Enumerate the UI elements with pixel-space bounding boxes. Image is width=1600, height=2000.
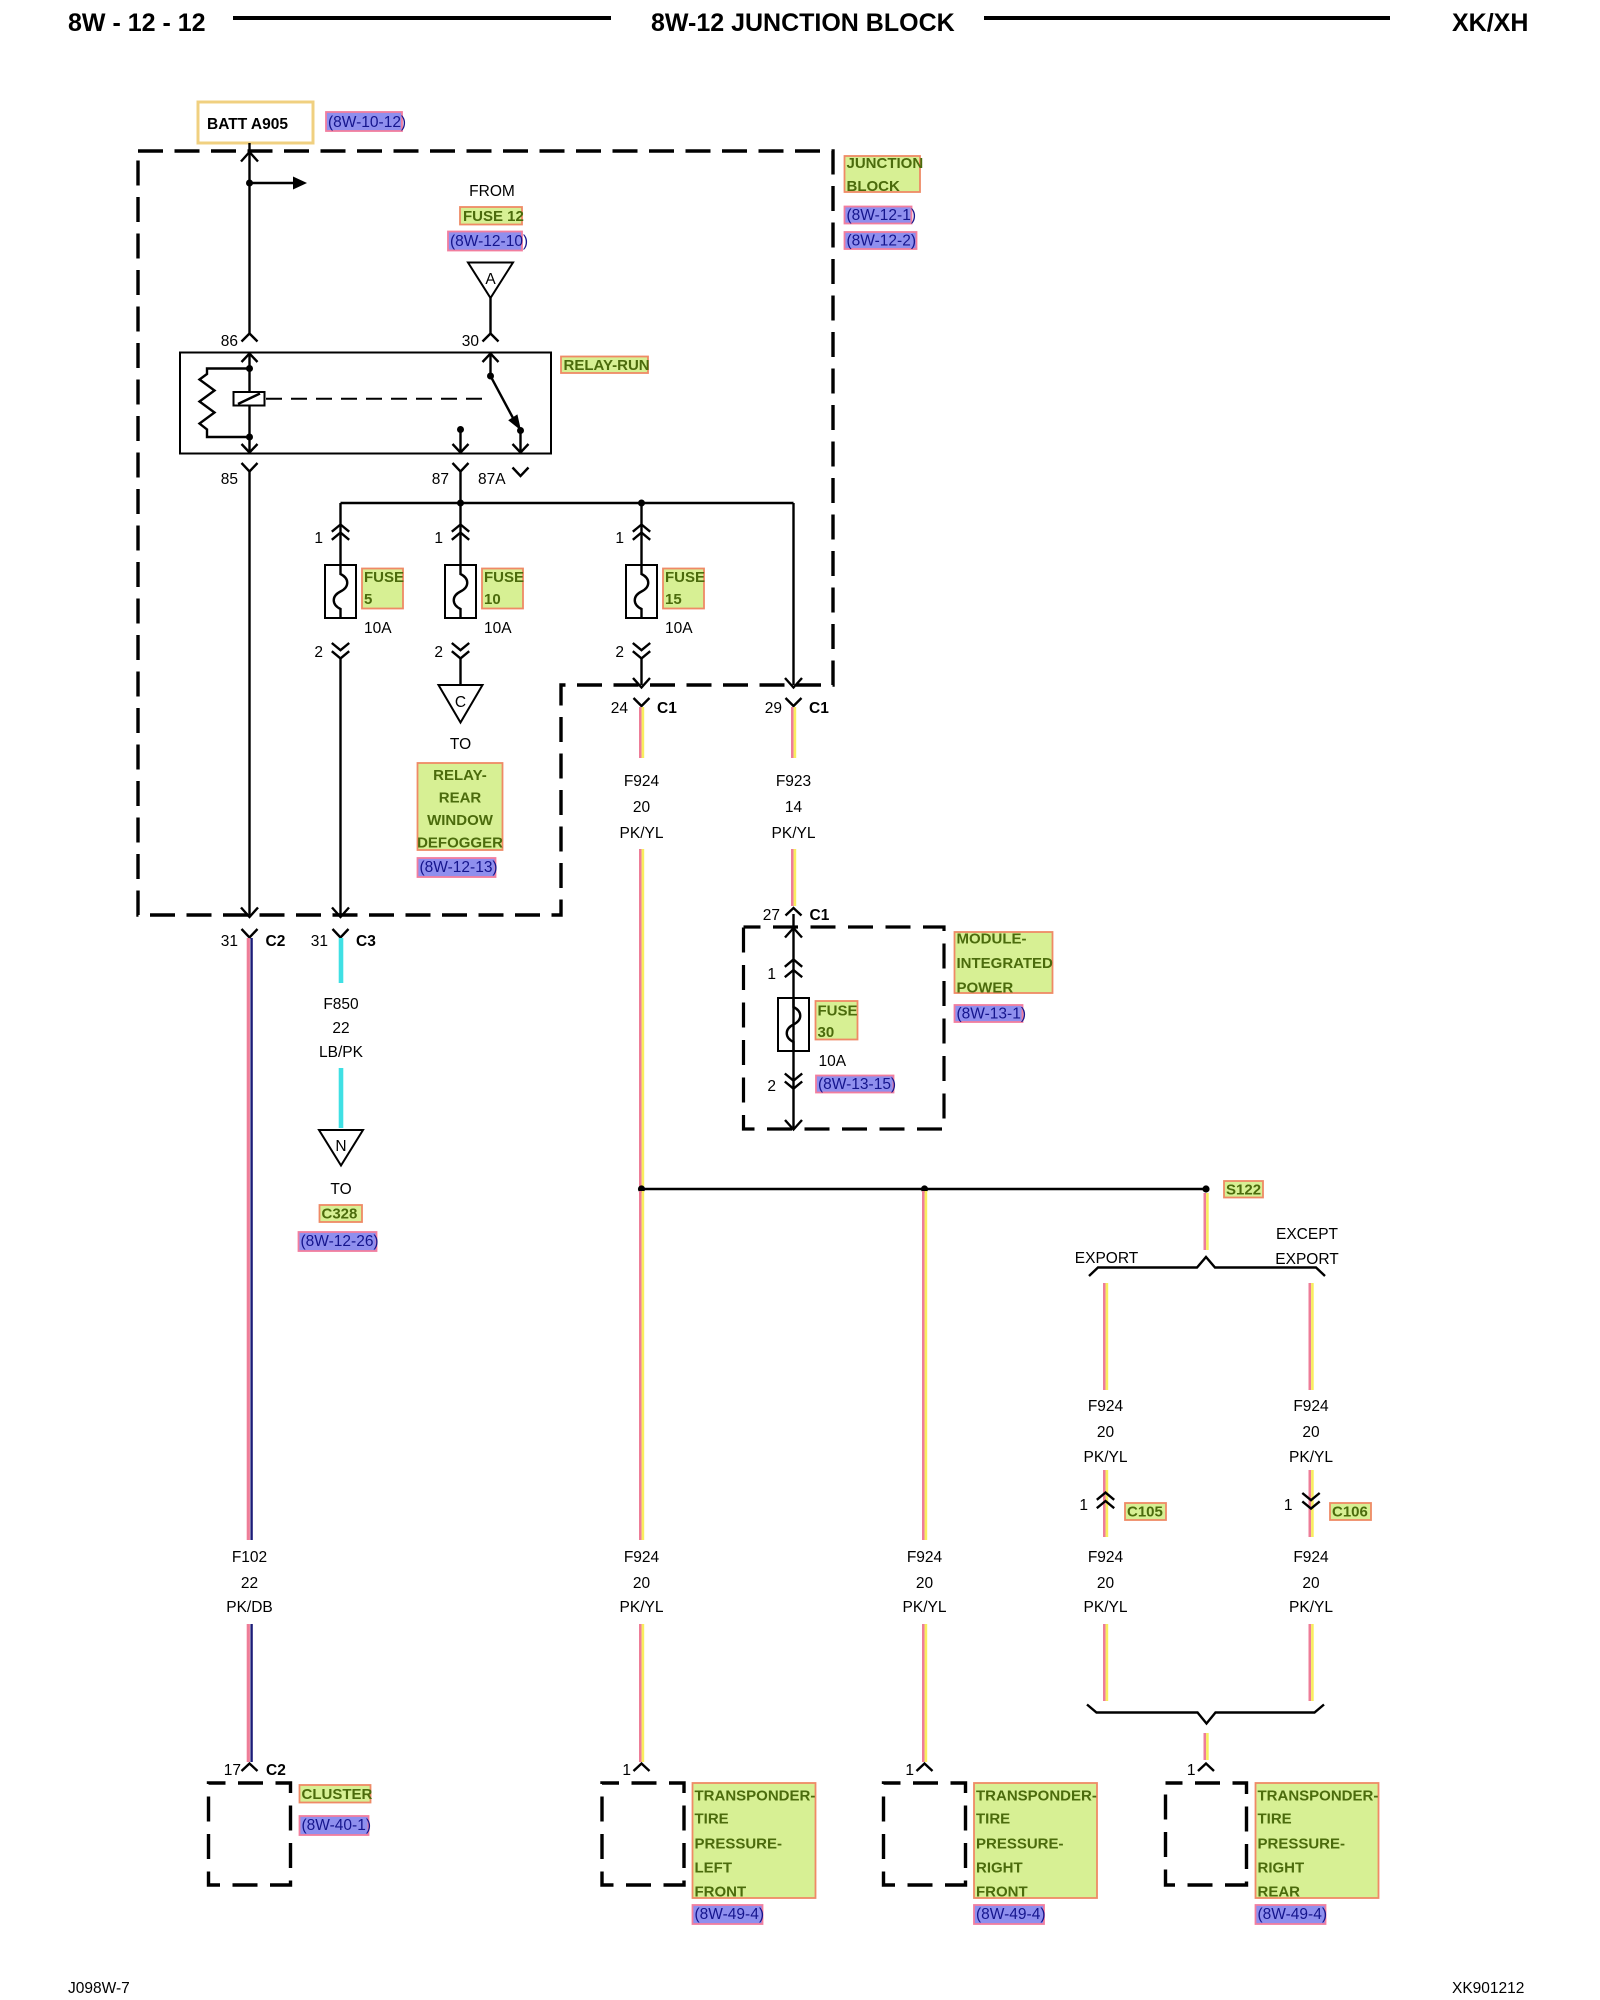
label FUSE 15	[663, 569, 704, 609]
svg-text:2: 2	[767, 1078, 776, 1095]
svg-text:FROM: FROM	[469, 183, 515, 200]
label S122	[1224, 1181, 1263, 1198]
fuse F15	[626, 565, 657, 618]
svg-text:PRESSURE-: PRESSURE-	[1258, 1836, 1346, 1853]
svg-text:TRANSPONDER-: TRANSPONDER-	[976, 1788, 1097, 1805]
svg-text:BATT A905: BATT A905	[207, 116, 288, 133]
svg-text:PRESSURE-: PRESSURE-	[695, 1836, 783, 1853]
arrow up at module top	[785, 928, 802, 938]
svg-text:F850: F850	[323, 996, 359, 1013]
label TRANSPONDER-TIRE PRESSURE-LEFT FRONT	[693, 1783, 816, 1898]
connector 1 at transponder RR	[1198, 1764, 1214, 1772]
svg-text:8W - 12 - 12: 8W - 12 - 12	[68, 9, 206, 37]
feed symbol C triangle	[439, 685, 483, 723]
junction dot S122 middle	[921, 1185, 928, 1192]
header rule right	[984, 16, 1390, 20]
connector 31 C2	[242, 929, 258, 938]
fuse F5 pin 2	[332, 643, 349, 650]
svg-text:20: 20	[633, 799, 651, 816]
svg-text:PK/YL: PK/YL	[1289, 1599, 1333, 1616]
relay mechanical link dashed	[266, 398, 488, 400]
svg-text:(8W-49-4): (8W-49-4)	[695, 1906, 764, 1923]
svg-text:F923: F923	[776, 773, 811, 790]
branch arrow to right	[250, 182, 294, 184]
svg-text:(8W-12-2): (8W-12-2)	[847, 233, 916, 250]
svg-text:1: 1	[622, 1762, 631, 1779]
svg-text:PK/YL: PK/YL	[620, 1599, 664, 1616]
label FUSE 5	[362, 569, 403, 609]
fuse F15 pin 1	[633, 525, 650, 532]
svg-text:REAR: REAR	[1258, 1884, 1301, 1901]
junction block dashed outline	[138, 151, 833, 915]
svg-text:XK/XH: XK/XH	[1452, 9, 1528, 37]
svg-text:F924: F924	[1293, 1398, 1329, 1415]
connector 29 C1	[786, 698, 802, 706]
label FUSE 10	[482, 569, 523, 609]
label (8W-13-15)	[816, 1076, 894, 1093]
fuse bus wire	[341, 502, 794, 504]
wire S122 down left branch F924	[639, 1191, 642, 1540]
wire export branch F924	[1103, 1283, 1106, 1390]
svg-text:87A: 87A	[478, 471, 506, 488]
wire F102 22 PK/DB from 31 C2	[247, 938, 250, 1540]
splice S122 bus	[642, 1188, 1207, 1190]
label (8W-12-1)	[845, 207, 912, 224]
svg-text:1: 1	[434, 530, 443, 547]
junction dot fuse F15 branch	[638, 500, 645, 507]
fuse F5 pin 1	[332, 525, 349, 532]
relay coil	[234, 392, 265, 406]
label (8W-40-1)	[300, 1816, 369, 1835]
wire 27 C1 into module	[792, 914, 794, 928]
fuse F30 pin 2	[785, 1074, 802, 1081]
svg-text:5: 5	[364, 591, 372, 608]
svg-text:(8W-40-1): (8W-40-1)	[302, 1817, 371, 1834]
label (8W-49-4)	[693, 1905, 763, 1924]
svg-text:31: 31	[221, 933, 238, 950]
label (8W-12-13)	[418, 858, 496, 877]
svg-text:10A: 10A	[364, 620, 392, 637]
svg-text:1: 1	[615, 530, 624, 547]
relay 87 leg	[457, 426, 464, 433]
label TRANSPONDER-TIRE PRESSURE-RIGHT REAR	[1256, 1783, 1379, 1898]
svg-text:1: 1	[314, 530, 323, 547]
svg-text:PK/YL: PK/YL	[772, 825, 816, 842]
svg-text:22: 22	[332, 1020, 349, 1037]
fuse F15 branch wire	[640, 503, 642, 565]
fuse F10 branch wire	[459, 503, 461, 565]
svg-text:PK/YL: PK/YL	[1289, 1449, 1333, 1466]
arrow into junction block	[241, 152, 258, 162]
svg-text:EXPORT: EXPORT	[1275, 1251, 1339, 1268]
svg-text:EXCEPT: EXCEPT	[1276, 1226, 1339, 1243]
svg-text:8W-12 JUNCTION BLOCK: 8W-12 JUNCTION BLOCK	[651, 9, 955, 37]
split bracket EXPORT / EXCEPT EXPORT	[1089, 1257, 1325, 1276]
wire S122 down middle branch F924	[922, 1191, 925, 1540]
header rule left	[233, 16, 611, 20]
svg-text:C: C	[455, 694, 466, 711]
svg-text:2: 2	[615, 644, 624, 661]
svg-text:C3: C3	[356, 933, 376, 950]
svg-text:30: 30	[462, 333, 480, 350]
junction dot on batt wire	[246, 180, 253, 187]
svg-text:10: 10	[484, 591, 501, 608]
svg-text:(8W-12-13): (8W-12-13)	[420, 859, 498, 876]
node BATT A905 box	[198, 102, 313, 143]
fuse F30	[778, 998, 809, 1051]
wire bus to 29 C1	[792, 503, 794, 685]
relay RELAY-RUN box	[180, 353, 551, 454]
label RELAY-REAR WINDOW DEFOGGER	[418, 763, 503, 850]
label CLUSTER	[300, 1785, 371, 1803]
connector 1 C105	[1097, 1493, 1114, 1500]
svg-text:1: 1	[1284, 1497, 1293, 1514]
label (8W-12-10)	[448, 232, 522, 251]
feed symbol N triangle	[319, 1130, 363, 1166]
svg-text:EXPORT: EXPORT	[1075, 1250, 1139, 1267]
label JUNCTION BLOCK	[845, 156, 921, 192]
label (8W-49-4)	[974, 1905, 1044, 1924]
svg-text:31: 31	[311, 933, 328, 950]
connector 1 at transponder LF	[634, 1764, 650, 1772]
svg-text:WINDOW: WINDOW	[427, 812, 494, 829]
svg-text:14: 14	[785, 799, 803, 816]
svg-text:TRANSPONDER-: TRANSPONDER-	[1258, 1788, 1379, 1805]
svg-text:FUSE: FUSE	[665, 569, 705, 586]
svg-text:20: 20	[916, 1575, 934, 1592]
svg-text:2: 2	[314, 644, 323, 661]
relay coil branch wire	[248, 353, 250, 454]
svg-text:TO: TO	[450, 736, 471, 753]
svg-text:(8W-13-15): (8W-13-15)	[818, 1076, 896, 1093]
svg-text:20: 20	[1097, 1424, 1115, 1441]
fuse F5	[325, 565, 356, 618]
svg-text:S122: S122	[1226, 1182, 1261, 1199]
component TRANSPONDER-TIRE PRESSURE-LEFT FRONT dashed box	[602, 1783, 684, 1885]
svg-text:C106: C106	[1332, 1504, 1368, 1521]
svg-text:FRONT: FRONT	[976, 1884, 1028, 1901]
svg-text:CLUSTER: CLUSTER	[302, 1786, 373, 1803]
svg-text:F924: F924	[1088, 1549, 1124, 1566]
svg-text:FUSE: FUSE	[364, 569, 404, 586]
svg-text:TIRE: TIRE	[1258, 1811, 1292, 1828]
svg-text:PK/DB: PK/DB	[226, 1599, 273, 1616]
svg-text:29: 29	[765, 700, 782, 717]
svg-text:F924: F924	[624, 1549, 660, 1566]
svg-text:86: 86	[221, 333, 238, 350]
svg-text:FUSE 12: FUSE 12	[463, 208, 524, 225]
svg-text:C2: C2	[266, 1762, 286, 1779]
svg-text:(8W-10-12): (8W-10-12)	[328, 114, 406, 131]
label MODULE-INTEGRATED POWER	[955, 932, 1053, 993]
label RELAY-RUN	[561, 357, 648, 374]
svg-text:C2: C2	[266, 933, 286, 950]
label TRANSPONDER-TIRE PRESSURE-RIGHT FRONT	[974, 1783, 1097, 1898]
connector 17 C2	[242, 1764, 258, 1772]
svg-text:10A: 10A	[665, 620, 693, 637]
svg-text:20: 20	[633, 1575, 651, 1592]
svg-text:30: 30	[818, 1024, 835, 1041]
label C328	[320, 1205, 363, 1222]
wire fuse F5 to C3	[339, 659, 341, 916]
wire BATT to relay pin 86	[248, 143, 250, 334]
svg-text:F924: F924	[1293, 1549, 1329, 1566]
svg-text:2: 2	[434, 644, 443, 661]
svg-text:(8W-12-26): (8W-12-26)	[301, 1233, 379, 1250]
relay 87A leg	[519, 431, 521, 454]
svg-text:XK901212: XK901212	[1452, 1980, 1524, 1997]
fuse F30 pin 1	[785, 960, 802, 967]
svg-text:C1: C1	[657, 700, 677, 717]
svg-text:FRONT: FRONT	[695, 1884, 747, 1901]
component TRANSPONDER-TIRE PRESSURE-RIGHT REAR dashed box	[1166, 1783, 1247, 1885]
svg-text:(8W-12-1): (8W-12-1)	[847, 207, 916, 224]
pin 85 connector	[242, 463, 258, 472]
svg-text:85: 85	[221, 471, 238, 488]
svg-text:20: 20	[1302, 1424, 1320, 1441]
wire F924 20 PK/YL from 24 C1	[639, 707, 642, 758]
merge bracket to transponder RR	[1087, 1705, 1324, 1724]
fuse F10	[445, 565, 476, 618]
fuse F5 branch wire	[339, 503, 341, 565]
svg-text:10A: 10A	[484, 620, 512, 637]
wire pin 85 down to C2	[248, 472, 250, 916]
svg-text:PK/YL: PK/YL	[903, 1599, 947, 1616]
svg-text:REAR: REAR	[439, 790, 482, 807]
arrow down at module bottom	[785, 1120, 802, 1130]
svg-text:LB/PK: LB/PK	[319, 1044, 364, 1061]
wire fuse F10 to C symbol	[459, 659, 461, 686]
relay switch from pin 30	[489, 353, 491, 377]
svg-text:C1: C1	[810, 907, 830, 924]
svg-text:C328: C328	[322, 1206, 358, 1223]
label FUSE 30	[816, 1001, 858, 1040]
svg-text:N: N	[335, 1138, 346, 1155]
svg-text:22: 22	[241, 1575, 258, 1592]
fuse F15 pin 2	[633, 643, 650, 650]
pin 86 connector caret	[242, 334, 258, 342]
component TRANSPONDER-TIRE PRESSURE-RIGHT FRONT dashed box	[884, 1783, 966, 1885]
label (8W-10-12)	[326, 112, 402, 131]
svg-text:TIRE: TIRE	[976, 1811, 1010, 1828]
svg-text:DEFOGGER: DEFOGGER	[417, 835, 503, 852]
arrow to pin 85	[242, 444, 258, 453]
component CLUSTER dashed box	[209, 1783, 291, 1885]
svg-text:POWER: POWER	[957, 980, 1014, 997]
wire pin 87 to fuse bus	[459, 472, 461, 504]
wire A to pin 30	[489, 298, 491, 334]
svg-text:87: 87	[432, 471, 449, 488]
svg-text:RIGHT: RIGHT	[1258, 1860, 1305, 1877]
svg-text:(8W-49-4): (8W-49-4)	[976, 1906, 1045, 1923]
svg-text:C1: C1	[809, 700, 829, 717]
module MODULE-INTEGRATED POWER dashed box	[744, 927, 945, 1129]
svg-text:F924: F924	[907, 1549, 943, 1566]
wire stub to transponder RR	[1204, 1733, 1207, 1760]
svg-text:(8W-13-1): (8W-13-1)	[957, 1006, 1026, 1023]
pin 87 connector	[453, 463, 469, 472]
svg-text:MODULE-: MODULE-	[957, 931, 1027, 948]
wire S122 stub to split	[1204, 1193, 1207, 1250]
wire F923 14 PK/YL from 29 C1	[791, 707, 794, 758]
svg-text:1: 1	[905, 1762, 914, 1779]
svg-text:17: 17	[224, 1762, 241, 1779]
svg-text:1: 1	[767, 966, 776, 983]
connector 27 C1	[786, 908, 802, 916]
wire fuse F15 to 24 C1	[640, 659, 642, 686]
label (8W-49-4)	[1256, 1905, 1326, 1924]
svg-text:J098W-7: J098W-7	[68, 1980, 130, 1997]
svg-text:F924: F924	[624, 773, 660, 790]
svg-text:JUNCTION: JUNCTION	[847, 155, 924, 172]
svg-text:TO: TO	[330, 1181, 351, 1198]
svg-text:TIRE: TIRE	[695, 1811, 729, 1828]
label (8W-12-26)	[299, 1232, 377, 1251]
pin 87A connector	[513, 468, 529, 477]
svg-text:LEFT: LEFT	[695, 1860, 733, 1877]
svg-text:RIGHT: RIGHT	[976, 1860, 1023, 1877]
svg-text:15: 15	[665, 591, 682, 608]
svg-text:INTEGRATED: INTEGRATED	[957, 955, 1054, 972]
fuse F10 pin 2	[452, 643, 469, 650]
junction dot pin 87 to bus	[457, 500, 464, 507]
relay resistor	[200, 369, 250, 438]
svg-text:FUSE: FUSE	[818, 1003, 858, 1020]
svg-text:(8W-12-10): (8W-12-10)	[450, 233, 528, 250]
svg-text:1: 1	[1187, 1762, 1196, 1779]
wire inside module	[792, 928, 794, 1128]
svg-text:RELAY-: RELAY-	[433, 767, 487, 784]
svg-text:PRESSURE-: PRESSURE-	[976, 1836, 1064, 1853]
connector 24 C1	[634, 698, 650, 706]
svg-text:F102: F102	[232, 1549, 267, 1566]
junction dot S122 right	[1202, 1185, 1209, 1192]
pin 30 connector caret	[483, 334, 499, 342]
svg-text:A: A	[485, 271, 496, 288]
svg-text:PK/YL: PK/YL	[1084, 1599, 1128, 1616]
fuse F10 pin 1	[452, 525, 469, 532]
svg-text:20: 20	[1097, 1575, 1115, 1592]
svg-text:1: 1	[1079, 1497, 1088, 1514]
connector 1 C106	[1302, 1493, 1319, 1500]
svg-text:27: 27	[763, 907, 780, 924]
svg-text:RELAY-RUN: RELAY-RUN	[564, 357, 650, 374]
feed symbol A triangle	[468, 263, 513, 299]
connector 31 C3	[333, 929, 349, 938]
wire F850 22 LB/PK from 31 C3	[339, 938, 344, 983]
svg-text:24: 24	[611, 700, 629, 717]
svg-text:F924: F924	[1088, 1398, 1124, 1415]
svg-text:FUSE: FUSE	[484, 569, 524, 586]
connector 1 at transponder RF	[917, 1764, 933, 1772]
wire except-export branch F924	[1309, 1283, 1312, 1390]
label (8W-12-2)	[845, 232, 917, 249]
svg-text:20: 20	[1302, 1575, 1320, 1592]
svg-text:C105: C105	[1127, 1504, 1163, 1521]
svg-text:PK/YL: PK/YL	[620, 825, 664, 842]
label (8W-13-1)	[955, 1005, 1023, 1022]
svg-text:PK/YL: PK/YL	[1084, 1449, 1128, 1466]
svg-text:TRANSPONDER-: TRANSPONDER-	[695, 1788, 816, 1805]
svg-text:(8W-49-4): (8W-49-4)	[1258, 1906, 1327, 1923]
junction dot S122 left	[638, 1185, 645, 1192]
svg-text:BLOCK: BLOCK	[847, 178, 900, 195]
svg-text:10A: 10A	[819, 1053, 847, 1070]
